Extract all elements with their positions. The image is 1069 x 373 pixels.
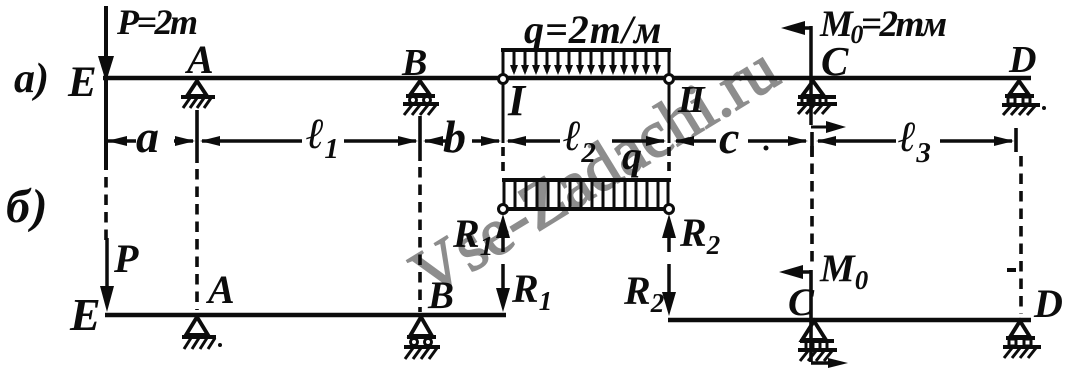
tick A — [195, 110, 199, 163]
support C upper — [797, 81, 837, 114]
force R1 down arrow — [496, 264, 510, 312]
support C lower — [798, 321, 837, 361]
dashed line II — [667, 147, 671, 177]
tick D — [1014, 128, 1018, 152]
dashed line B — [418, 167, 422, 312]
force P arrow at E — [98, 6, 114, 170]
force P arrow (lower) — [100, 238, 114, 312]
svg-text:R2: R2 — [623, 268, 664, 318]
svg-text:Vse-Zadachi.ru: Vse-Zadachi.ru — [398, 31, 790, 311]
dimension tick E / solid drop at I, II — [502, 82, 505, 143]
dimension a E-A — [107, 136, 195, 146]
svg-text:D: D — [1033, 281, 1063, 326]
beam II-D (lower right) — [668, 318, 1031, 323]
support D upper — [1002, 81, 1046, 115]
svg-text:B: B — [401, 42, 427, 84]
beam E-I (lower left) — [105, 313, 506, 318]
svg-text:ℓ3: ℓ3 — [898, 114, 931, 169]
tick C — [810, 132, 814, 157]
dimension c II-C — [674, 136, 808, 151]
hinge circle lower left — [499, 205, 508, 214]
svg-text:P=2т: P=2т — [116, 2, 197, 42]
svg-text:а: а — [136, 111, 159, 162]
svg-text:P: P — [113, 236, 139, 281]
svg-text:ℓ1: ℓ1 — [306, 111, 339, 165]
support A lower — [182, 317, 222, 349]
svg-text:а): а) — [14, 56, 49, 102]
svg-text:II: II — [677, 79, 706, 121]
dashed line I — [501, 147, 505, 177]
dashed line A — [195, 169, 199, 310]
svg-text:E: E — [69, 289, 101, 340]
svg-text:C: C — [821, 38, 849, 84]
support B upper — [403, 81, 439, 115]
hinge circle I — [499, 75, 508, 84]
svg-text:q=2т/м: q=2т/м — [524, 7, 662, 52]
svg-text:б): б) — [6, 180, 49, 233]
svg-text:b: b — [443, 111, 466, 162]
svg-text:E: E — [67, 59, 97, 106]
svg-text:C: C — [788, 281, 815, 324]
force R2 down arrow — [662, 264, 676, 316]
tick B — [418, 116, 422, 161]
dimension l2 I-II — [506, 136, 666, 146]
svg-text:q: q — [622, 133, 642, 178]
dimension l3 C-D — [816, 136, 1014, 146]
hinge circle lower right — [665, 205, 674, 214]
hinge circle II — [665, 75, 674, 84]
svg-text:R2: R2 — [679, 210, 720, 260]
dimension b B-I — [423, 136, 501, 146]
dimension l1 A-B — [200, 136, 418, 146]
distributed load block (lower free body) — [500, 180, 673, 209]
dashed line D — [1019, 156, 1023, 314]
stray dash near D — [1007, 268, 1016, 272]
distributed load q (upper) — [501, 50, 671, 75]
beam ED (upper) — [103, 76, 1031, 81]
svg-text:c: c — [719, 112, 739, 163]
support A upper — [181, 81, 215, 108]
svg-text:A: A — [205, 267, 235, 312]
wire II solid drop — [668, 82, 671, 143]
svg-text:B: B — [427, 274, 454, 317]
svg-text:A: A — [184, 37, 214, 82]
watermark vse-zadachi.ru — [398, 31, 790, 311]
reaction R2 up arrow — [662, 214, 676, 252]
svg-text:I: I — [507, 76, 527, 125]
moment M0 arrow (lower C) — [779, 265, 848, 368]
support B lower — [404, 317, 440, 359]
svg-text:M0: M0 — [819, 247, 869, 295]
svg-text:R1: R1 — [511, 266, 552, 316]
support D lower — [1003, 321, 1041, 358]
moment M0 arrow (upper C) — [781, 21, 846, 133]
reaction R1 up arrow — [496, 214, 510, 252]
dashed line C — [810, 146, 814, 262]
svg-text:D: D — [1008, 39, 1036, 81]
dashed line E — [104, 177, 108, 246]
